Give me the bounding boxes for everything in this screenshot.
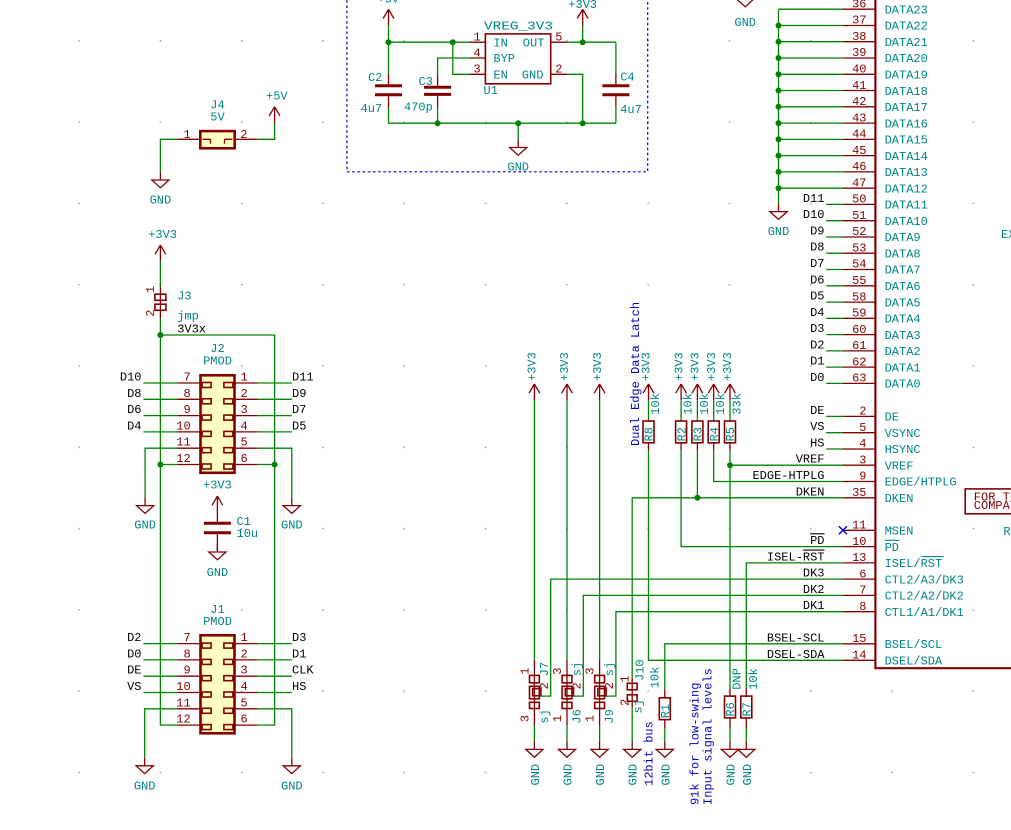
ground xyxy=(656,741,673,757)
pin 15 BSEL/SCL xyxy=(843,643,876,645)
svg-text:46: 46 xyxy=(852,160,866,174)
resistor R3 10k xyxy=(692,421,703,443)
svg-text:8: 8 xyxy=(184,387,191,401)
svg-text:R8: R8 xyxy=(643,427,657,441)
wire pin 47 xyxy=(779,187,843,189)
svg-text:7: 7 xyxy=(184,631,191,645)
svg-text:DATA17: DATA17 xyxy=(885,101,928,115)
power flag +3V3 xyxy=(708,384,719,400)
svg-text:10k: 10k xyxy=(714,393,728,415)
svg-text:R1: R1 xyxy=(659,704,673,718)
pin 58 DATA5 xyxy=(843,301,876,303)
svg-text:CTL2/A3/DK3: CTL2/A3/DK3 xyxy=(885,573,964,587)
svg-text:GND: GND xyxy=(659,764,673,786)
svg-text:D11: D11 xyxy=(292,371,314,385)
pin 43 DATA16 xyxy=(843,122,876,124)
svg-text:DATA9: DATA9 xyxy=(885,231,921,245)
svg-text:EDGE/HTPLG: EDGE/HTPLG xyxy=(885,476,957,490)
junction xyxy=(776,71,782,77)
ground (J2 right) xyxy=(283,498,300,514)
svg-text:J10: J10 xyxy=(633,659,647,681)
wire +3V3 to R5 xyxy=(729,400,731,421)
svg-text:Dual Edge Data Latch: Dual Edge Data Latch xyxy=(629,302,643,446)
svg-text:10k: 10k xyxy=(698,393,712,415)
pin 61 DATA2 xyxy=(843,350,876,352)
J1 pin 1 / D3 xyxy=(235,643,258,645)
ground rail under regulator xyxy=(389,123,616,139)
svg-text:4: 4 xyxy=(474,46,481,60)
svg-text:7: 7 xyxy=(184,371,191,385)
svg-text:38: 38 xyxy=(852,30,866,44)
power flag +3V3 xyxy=(643,384,654,400)
junction xyxy=(515,120,521,126)
J2 pin 5 to GND xyxy=(235,447,258,449)
svg-text:+3V3: +3V3 xyxy=(203,478,232,492)
J1 pin 9 / DE xyxy=(143,675,177,677)
svg-text:COMPATIB: COMPATIB xyxy=(974,499,1011,513)
svg-text:10u: 10u xyxy=(237,527,259,541)
svg-text:D6: D6 xyxy=(127,403,141,417)
junction at C2 top xyxy=(386,39,392,45)
svg-text:IN: IN xyxy=(493,36,507,50)
pin 3 VREF xyxy=(843,464,876,466)
capacitor C1 xyxy=(216,512,218,550)
J1 pin 8 / D0 xyxy=(143,659,177,661)
svg-text:DATA22: DATA22 xyxy=(885,20,928,34)
svg-text:+3V3: +3V3 xyxy=(721,352,735,381)
pin 36 DATA23 xyxy=(843,8,876,10)
svg-text:+3V3: +3V3 xyxy=(705,352,719,381)
pin 6 CTL2/A3/DK3 xyxy=(843,578,876,580)
ground xyxy=(558,741,575,757)
svg-text:1: 1 xyxy=(619,675,633,682)
svg-text:+5V: +5V xyxy=(266,90,288,104)
wire + label D0 xyxy=(826,382,843,384)
svg-text:52: 52 xyxy=(852,225,866,239)
power flag +3V3 xyxy=(692,384,703,400)
svg-text:DATA0: DATA0 xyxy=(885,378,921,392)
U1 pin 5 OUT xyxy=(551,41,567,43)
junction xyxy=(157,462,163,468)
resistor R4 10k xyxy=(708,421,719,443)
svg-text:jmp: jmp xyxy=(177,310,199,324)
svg-text:Input signal levels: Input signal levels xyxy=(702,668,716,805)
svg-text:+3V3: +3V3 xyxy=(672,352,686,381)
ground xyxy=(738,741,755,757)
svg-text:DATA6: DATA6 xyxy=(885,280,921,294)
wire R5 through VREF junction down to R6 xyxy=(729,443,731,450)
svg-text:R2: R2 xyxy=(675,427,689,441)
svg-text:DATA12: DATA12 xyxy=(885,182,928,196)
resistor R5 33k xyxy=(725,421,736,443)
resistor R6 top lead xyxy=(729,688,731,697)
svg-text:BYP: BYP xyxy=(493,52,515,66)
svg-text:J3: J3 xyxy=(177,289,191,303)
svg-text:R4: R4 xyxy=(708,427,722,441)
junction xyxy=(776,39,782,45)
wire pin2 GND down to rail xyxy=(567,74,583,123)
svg-text:ISEL/RST: ISEL/RST xyxy=(885,557,943,571)
svg-text:PMOD: PMOD xyxy=(203,615,232,629)
svg-text:6: 6 xyxy=(241,713,248,727)
svg-text:10: 10 xyxy=(176,419,190,433)
svg-text:1: 1 xyxy=(519,667,533,674)
svg-text:1: 1 xyxy=(551,715,565,722)
wire pin 42 xyxy=(779,106,843,108)
junction xyxy=(776,169,782,175)
wire pin 39 xyxy=(779,57,843,59)
svg-text:EN: EN xyxy=(493,69,507,83)
wire pin4 BYP to C3 xyxy=(438,58,470,75)
svg-text:11: 11 xyxy=(176,436,190,450)
svg-text:+5V: +5V xyxy=(378,0,400,7)
svg-text:DATA16: DATA16 xyxy=(885,117,928,131)
svg-text:C4: C4 xyxy=(620,71,634,85)
wire pin 40 xyxy=(779,73,843,75)
power flag +3V3 (above J3) xyxy=(155,245,166,261)
pin 42 DATA17 xyxy=(843,106,876,108)
dashed note box around regulator xyxy=(347,0,648,172)
wire ISEL-RST (IC pin 13) down to R7 xyxy=(746,563,843,688)
J2 pin 12 xyxy=(160,464,177,466)
wire R4 to EDGE-HTPLG (IC pin 9) xyxy=(713,443,715,450)
pin 44 DATA15 xyxy=(843,138,876,140)
svg-text:60: 60 xyxy=(852,323,866,337)
J4 pin 2 xyxy=(235,138,258,140)
svg-text:DATA21: DATA21 xyxy=(885,36,928,50)
svg-text:61: 61 xyxy=(852,339,866,353)
svg-text:DATA13: DATA13 xyxy=(885,166,928,180)
wire + label D4 xyxy=(826,317,843,319)
pin 54 DATA7 xyxy=(843,269,876,271)
pin 10 PD xyxy=(843,546,876,548)
svg-text:DE: DE xyxy=(885,411,899,425)
wire pin2 to +5V xyxy=(257,123,274,139)
svg-text:HSYNC: HSYNC xyxy=(885,443,921,457)
J2 pin 8 / D8 xyxy=(143,398,177,400)
svg-text:D9: D9 xyxy=(810,225,824,239)
svg-text:45: 45 xyxy=(852,144,866,158)
svg-text:2: 2 xyxy=(859,405,866,419)
pin 13 ISEL/RST xyxy=(843,562,876,564)
svg-text:GND: GND xyxy=(594,764,608,786)
svg-text:1: 1 xyxy=(144,286,158,293)
wire J9 pin2 to DK1 xyxy=(606,612,843,696)
svg-text:6: 6 xyxy=(859,567,866,581)
resistor R6 DNP xyxy=(725,696,736,718)
svg-text:DATA11: DATA11 xyxy=(885,199,928,213)
wire + label D9 xyxy=(826,236,843,238)
svg-text:EX: EX xyxy=(1001,228,1011,242)
svg-text:HS: HS xyxy=(810,437,824,451)
U1 pin 4 BYP xyxy=(469,57,485,59)
svg-text:D8: D8 xyxy=(127,387,141,401)
wire +5V to U1 pin1 xyxy=(389,26,470,43)
wire EN branch down to pin3 xyxy=(453,42,469,74)
junction xyxy=(776,104,782,110)
J1 pin 3 / CLK xyxy=(235,675,258,677)
J1 pin 2 / D1 xyxy=(235,659,258,661)
svg-text:D0: D0 xyxy=(127,647,141,661)
svg-text:3: 3 xyxy=(241,664,248,678)
J1 pin 4 / HS xyxy=(235,692,258,694)
svg-text:50: 50 xyxy=(852,193,866,207)
svg-text:+3V3: +3V3 xyxy=(568,0,597,12)
junction xyxy=(694,495,700,501)
resistor R1 10k xyxy=(659,698,670,720)
svg-text:GND: GND xyxy=(281,519,303,533)
wire + label D6 xyxy=(826,285,843,287)
U1 pin 1 IN xyxy=(469,41,485,43)
svg-text:12: 12 xyxy=(176,452,190,466)
svg-text:MSEN: MSEN xyxy=(885,525,914,539)
svg-text:DATA14: DATA14 xyxy=(885,150,928,164)
svg-text:DATA18: DATA18 xyxy=(885,85,928,99)
svg-text:R7: R7 xyxy=(741,702,755,716)
junction at EN branch xyxy=(450,39,456,45)
svg-text:GND: GND xyxy=(281,780,303,794)
J2 pin 3 / D7 xyxy=(235,415,258,417)
svg-text:10k: 10k xyxy=(649,393,663,415)
svg-text:DATA5: DATA5 xyxy=(885,296,921,310)
svg-text:sj: sj xyxy=(632,699,646,713)
svg-text:54: 54 xyxy=(852,258,866,272)
svg-text:C3: C3 xyxy=(419,75,433,89)
svg-text:D0: D0 xyxy=(810,371,824,385)
svg-text:BSEL/SCL: BSEL/SCL xyxy=(885,638,943,652)
wire pin 46 xyxy=(779,171,843,173)
svg-text:470p: 470p xyxy=(404,101,433,115)
IC U? left edge and bottom edge xyxy=(875,0,1011,668)
wire +3V3 to R2 xyxy=(680,400,682,421)
svg-text:13: 13 xyxy=(852,551,866,565)
svg-text:44: 44 xyxy=(852,128,866,142)
svg-text:62: 62 xyxy=(852,355,866,369)
svg-text:C2: C2 xyxy=(368,71,382,85)
svg-text:1: 1 xyxy=(584,715,598,722)
junction xyxy=(580,120,586,126)
pin 14 DSEL/SDA xyxy=(843,659,876,661)
pin 2 DE xyxy=(843,415,876,417)
pin 4 HSYNC xyxy=(843,448,876,450)
svg-text:GND: GND xyxy=(150,194,172,208)
svg-text:2: 2 xyxy=(571,682,585,689)
svg-text:10k: 10k xyxy=(682,393,696,415)
wire +3V3 to R8 xyxy=(648,400,650,421)
power flag +3V3 xyxy=(594,384,605,400)
J2 pin 2 / D9 xyxy=(235,398,258,400)
svg-text:37: 37 xyxy=(852,14,866,28)
svg-text:HS: HS xyxy=(292,680,306,694)
wire pin 43 xyxy=(779,122,843,124)
J1 pin 11 to GND xyxy=(178,708,201,710)
svg-text:DATA4: DATA4 xyxy=(885,313,921,327)
svg-text:sj: sj xyxy=(538,709,552,723)
wire pin1 to GND xyxy=(160,139,177,172)
connector J1 PMOD xyxy=(201,635,235,733)
pin 50 DATA11 xyxy=(843,203,876,205)
svg-text:40: 40 xyxy=(852,63,866,77)
J1 pin hooks xyxy=(202,643,233,730)
svg-text:3: 3 xyxy=(859,453,866,467)
pin 35 DKEN xyxy=(843,497,876,499)
svg-text:42: 42 xyxy=(852,95,866,109)
wire 3V3x to J2 pin 6 column xyxy=(160,335,274,725)
svg-text:D10: D10 xyxy=(803,208,825,222)
wire BSEL-SCL (IC pin 15) down to R1 xyxy=(665,644,843,690)
J1 pin 7 / D2 xyxy=(143,643,177,645)
U1 pin 3 EN xyxy=(469,73,485,75)
ground (J1 right) xyxy=(283,758,300,774)
svg-text:VREG_3V3: VREG_3V3 xyxy=(484,20,553,34)
resistor R1 bottom lead to GND xyxy=(664,720,666,729)
pin 40 DATA19 xyxy=(843,73,876,75)
svg-text:35: 35 xyxy=(852,486,866,500)
ground xyxy=(624,741,641,757)
svg-text:53: 53 xyxy=(852,241,866,255)
svg-text:8: 8 xyxy=(184,647,191,661)
svg-text:91k for low-swing: 91k for low-swing xyxy=(689,683,703,805)
svg-text:36: 36 xyxy=(852,0,866,11)
pin 7 CTL2/A2/DK2 xyxy=(843,594,876,596)
GND bus for DATA12-DATA23 xyxy=(779,9,843,203)
junction xyxy=(776,55,782,61)
pin 60 DATA3 xyxy=(843,334,876,336)
svg-text:3: 3 xyxy=(519,715,533,722)
svg-text:GND: GND xyxy=(734,16,756,30)
svg-text:39: 39 xyxy=(852,46,866,60)
svg-text:sj: sj xyxy=(603,662,617,676)
svg-text:GND: GND xyxy=(627,764,641,786)
junction xyxy=(776,23,782,29)
svg-text:2: 2 xyxy=(619,699,633,706)
svg-text:GND: GND xyxy=(522,69,544,83)
svg-text:10: 10 xyxy=(176,680,190,694)
svg-text:GND: GND xyxy=(507,160,529,174)
J1 pin 12 xyxy=(178,724,201,726)
svg-text:4u7: 4u7 xyxy=(361,102,383,116)
ground (C1) xyxy=(209,544,226,560)
J2 pin 7 / D10 xyxy=(143,382,177,384)
resistor R2 10k xyxy=(676,421,687,443)
svg-text:DATA1: DATA1 xyxy=(885,361,921,375)
svg-text:11: 11 xyxy=(852,519,866,533)
ground (J1 left) xyxy=(136,758,153,774)
pin 39 DATA20 xyxy=(843,57,876,59)
pin 41 DATA18 xyxy=(843,90,876,92)
svg-text:7: 7 xyxy=(859,584,866,598)
junction xyxy=(776,120,782,126)
svg-text:D6: D6 xyxy=(810,273,824,287)
junction xyxy=(157,332,163,338)
J4 pin 1 xyxy=(178,138,201,140)
capacitor C2 xyxy=(388,42,390,123)
svg-text:63: 63 xyxy=(852,372,866,386)
svg-text:J9: J9 xyxy=(603,709,617,723)
svg-text:PMOD: PMOD xyxy=(203,355,232,369)
J2 pin 9 / D6 xyxy=(143,415,177,417)
svg-text:D4: D4 xyxy=(127,419,141,433)
svg-text:+3V3: +3V3 xyxy=(148,228,177,242)
wire HS xyxy=(826,448,843,450)
wire VS xyxy=(826,432,843,434)
svg-text:3: 3 xyxy=(241,403,248,417)
no-connect X on pin 11 xyxy=(839,526,847,534)
svg-text:+3V3: +3V3 xyxy=(591,352,605,381)
svg-text:DATA23: DATA23 xyxy=(885,3,928,17)
svg-text:VSYNC: VSYNC xyxy=(885,427,921,441)
svg-text:15: 15 xyxy=(852,632,866,646)
J2 pin 11 to GND xyxy=(178,447,201,449)
svg-text:5: 5 xyxy=(241,696,248,710)
svg-text:GND: GND xyxy=(134,519,156,533)
svg-text:9: 9 xyxy=(859,470,866,484)
svg-text:D8: D8 xyxy=(810,241,824,255)
svg-text:D7: D7 xyxy=(810,257,824,271)
svg-text:OUT: OUT xyxy=(523,36,545,50)
svg-text:12bit bus: 12bit bus xyxy=(642,721,656,786)
wire J7 pin2 to DK3 xyxy=(541,579,843,696)
svg-text:DATA19: DATA19 xyxy=(885,69,928,83)
junction xyxy=(776,88,782,94)
J2 pin 6 xyxy=(235,464,258,466)
svg-text:D1: D1 xyxy=(810,355,824,369)
svg-text:D3: D3 xyxy=(810,322,824,336)
svg-text:R3: R3 xyxy=(692,427,706,441)
pin 59 DATA4 xyxy=(843,317,876,319)
resistor R7 10k xyxy=(741,696,752,718)
wire DE xyxy=(826,415,843,417)
svg-text:11: 11 xyxy=(176,696,190,710)
svg-text:DSEL/SDA: DSEL/SDA xyxy=(885,655,943,669)
wire + label D11 xyxy=(826,203,843,205)
svg-text:D4: D4 xyxy=(810,306,824,320)
U1 pin 2 GND xyxy=(551,73,567,75)
wire + label D5 xyxy=(826,301,843,303)
svg-text:+3V3: +3V3 xyxy=(526,352,540,381)
svg-text:55: 55 xyxy=(852,274,866,288)
svg-text:J6: J6 xyxy=(570,709,584,723)
wire J6 pin2 to DK2 xyxy=(574,595,843,696)
resistor R7 bottom lead to GND xyxy=(745,718,747,728)
svg-text:2: 2 xyxy=(240,128,247,142)
power flag +3V3 (regulator output) xyxy=(577,9,588,25)
svg-text:R: R xyxy=(1003,525,1010,539)
wire +3V3 feed xyxy=(599,400,601,660)
junction xyxy=(776,185,782,191)
svg-text:D2: D2 xyxy=(127,631,141,645)
capacitor C3 xyxy=(437,75,439,107)
ground (J2 left) xyxy=(137,498,154,514)
pin 52 DATA9 xyxy=(843,236,876,238)
svg-text:GND: GND xyxy=(741,764,755,786)
solder jumper J7 sj xyxy=(533,660,535,726)
svg-text:1: 1 xyxy=(474,31,481,45)
svg-text:8: 8 xyxy=(859,600,866,614)
svg-text:2: 2 xyxy=(241,387,248,401)
power flag +3V3 xyxy=(676,384,687,400)
wire pin 44 xyxy=(779,138,843,140)
pin 38 DATA21 xyxy=(843,41,876,43)
pin 8 CTL1/A1/DK1 xyxy=(843,611,876,613)
svg-text:33k: 33k xyxy=(731,393,745,415)
wire + label D8 xyxy=(826,252,843,254)
svg-text:2: 2 xyxy=(538,682,552,689)
svg-text:2: 2 xyxy=(555,63,562,77)
pin 53 DATA8 xyxy=(843,252,876,254)
wire pin 37 xyxy=(779,25,843,27)
svg-text:J7: J7 xyxy=(538,662,552,676)
